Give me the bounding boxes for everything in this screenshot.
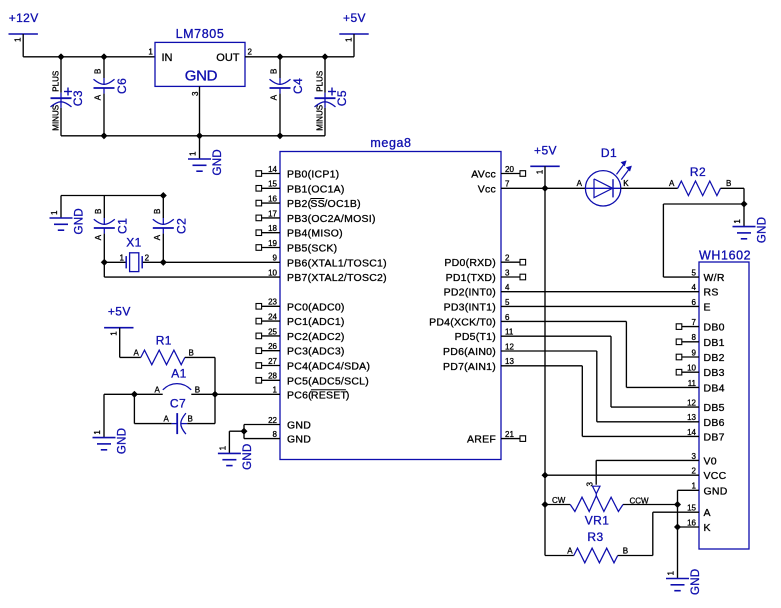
- ground near R2: [733, 217, 769, 243]
- svg-text:A1: A1: [171, 367, 186, 381]
- wire R3 B lead: [618, 555, 653, 557]
- svg-text:16: 16: [268, 195, 277, 204]
- svg-text:IN: IN: [162, 52, 173, 64]
- svg-text:C6: C6: [115, 78, 129, 94]
- op: mega8 box U2: [280, 136, 501, 460]
- mega8 pin 24 PC1(ADC1): [256, 313, 345, 329]
- wire C3 top lead: [60, 57, 62, 93]
- mega8 pin 22 GND: [268, 416, 311, 432]
- mega8 pin 18 PB4(MISO): [256, 224, 343, 240]
- mega8 pin 20 AVcc: [471, 165, 525, 181]
- svg-text:12: 12: [687, 399, 696, 408]
- svg-text:1: 1: [218, 445, 227, 450]
- capacitor C2: [153, 209, 189, 241]
- svg-text:19: 19: [268, 239, 277, 248]
- svg-text:+5V: +5V: [108, 305, 131, 319]
- svg-text:DB0: DB0: [704, 322, 725, 334]
- svg-text:3: 3: [586, 482, 595, 487]
- svg-text:DB1: DB1: [704, 337, 725, 349]
- svg-text:DB7: DB7: [704, 431, 725, 443]
- mega8 pin 11 PD5(T1): [455, 328, 514, 344]
- svg-text:7: 7: [505, 180, 510, 189]
- wire C1 top lead: [103, 196, 105, 219]
- wire xtal top rail: [61, 195, 163, 197]
- capacitor C3: [51, 71, 86, 131]
- junction C6 top: [101, 54, 108, 61]
- svg-text:PD5(T1): PD5(T1): [455, 331, 496, 343]
- svg-text:D1: D1: [601, 146, 617, 160]
- svg-text:14: 14: [687, 428, 696, 437]
- LCD pin 5 W/R: [692, 269, 725, 285]
- svg-text:1: 1: [119, 253, 124, 262]
- wire VCC h: [545, 474, 699, 476]
- LCD pin 8 DB1: [676, 333, 724, 349]
- capacitor C4: [270, 69, 306, 101]
- mega8 pin 3 PD1(TXD): [446, 268, 526, 284]
- svg-text:16: 16: [687, 518, 696, 527]
- wire PD3-E: [501, 305, 699, 307]
- svg-text:GND: GND: [212, 149, 224, 175]
- wire Vcc row: [501, 187, 585, 189]
- svg-text:C3: C3: [71, 90, 85, 106]
- mega8 pin 19 PB5(SCK): [256, 239, 337, 255]
- wire A stub: [653, 511, 699, 513]
- svg-text:MINUS: MINUS: [51, 105, 60, 131]
- svg-text:MINUS: MINUS: [315, 105, 324, 131]
- mega8 pin 2 PD0(RXD): [444, 254, 525, 270]
- LCD pin 10 DB3: [676, 364, 724, 380]
- wire A1 left stub: [134, 393, 162, 395]
- wire PB7 drop: [103, 262, 105, 277]
- capacitor C6: [94, 69, 130, 101]
- svg-text:23: 23: [268, 298, 277, 307]
- resistor R1: [134, 334, 194, 365]
- svg-text:VCC: VCC: [704, 470, 727, 482]
- wire C4 top lead: [279, 57, 281, 78]
- junction C6 bottom: [101, 133, 108, 140]
- svg-text:15: 15: [268, 180, 277, 189]
- svg-text:/OC1B): /OC1B): [324, 198, 361, 210]
- svg-text:13: 13: [687, 413, 696, 422]
- wire DB6 h: [597, 421, 699, 423]
- capacitor C1: [94, 209, 130, 241]
- mega8 pin 10 PB7(XTAL2/TOSC2): [268, 269, 387, 285]
- svg-text:PD1(TXD): PD1(TXD): [446, 272, 496, 284]
- wire +12V rail: [23, 56, 155, 58]
- wire to PC6: [215, 393, 280, 395]
- svg-text:6: 6: [692, 298, 697, 307]
- svg-text:): ): [346, 389, 350, 401]
- capacitor C7: [164, 397, 193, 435]
- wire WR vertical: [662, 204, 664, 277]
- svg-text:1: 1: [536, 169, 545, 174]
- svg-text:A: A: [577, 179, 583, 188]
- svg-text:CCW: CCW: [630, 497, 650, 506]
- junction WR gnd: [741, 201, 748, 208]
- junction C4 top: [277, 54, 284, 61]
- LCD pin 15 A: [687, 504, 711, 520]
- wire to PB7: [104, 276, 280, 278]
- svg-text:2: 2: [145, 253, 150, 262]
- svg-text:14: 14: [268, 165, 277, 174]
- LED D1: [577, 146, 632, 206]
- wire PD6 h: [501, 350, 597, 352]
- wire R2 B lead: [721, 187, 745, 189]
- power +5V: [339, 11, 368, 42]
- svg-text:DB4: DB4: [704, 382, 725, 394]
- svg-text:PD3(INT1): PD3(INT1): [444, 301, 496, 313]
- svg-text:PD0(RXD): PD0(RXD): [444, 257, 496, 269]
- mega8 pin 16 PB2(̅S̅S/OC1B): [256, 195, 361, 211]
- svg-text:LM7805: LM7805: [176, 27, 225, 41]
- svg-text:PC0(ADC0): PC0(ADC0): [287, 301, 345, 313]
- svg-text:GND: GND: [287, 434, 311, 446]
- svg-text:+5V: +5V: [343, 11, 366, 25]
- junction gnd pins: [241, 428, 248, 435]
- wire R2 to gnd: [743, 188, 745, 226]
- wire DB4 h: [626, 386, 699, 388]
- svg-text:A: A: [567, 547, 573, 556]
- switch A1: [155, 367, 201, 395]
- svg-text:18: 18: [268, 224, 277, 233]
- svg-text:C2: C2: [174, 218, 188, 234]
- wire ground rail: [61, 135, 325, 137]
- mega8 pin 21 AREF: [467, 430, 526, 446]
- wire C7 left lead: [134, 423, 171, 425]
- svg-text:9: 9: [692, 348, 697, 357]
- svg-text:C1: C1: [115, 218, 129, 234]
- svg-text:PD6(AIN0): PD6(AIN0): [443, 346, 496, 358]
- wire PD4 h: [501, 320, 626, 322]
- wire +5V long vertical: [544, 166, 546, 475]
- svg-text:K: K: [704, 522, 711, 534]
- svg-text:RESET: RESET: [311, 389, 348, 401]
- wire +5V drop: [119, 328, 121, 358]
- ground near crystal: [50, 208, 86, 234]
- mega8 pin 7 Vcc: [478, 180, 510, 196]
- svg-text:13: 13: [505, 357, 514, 366]
- svg-text:1: 1: [692, 482, 697, 491]
- wire PD6 v: [596, 351, 598, 422]
- svg-text:B: B: [270, 69, 279, 74]
- svg-text:5: 5: [692, 269, 697, 278]
- LCD pin 11 DB4: [688, 379, 725, 395]
- wire WR horizontal: [663, 203, 744, 205]
- wire DB5 h: [611, 406, 699, 408]
- svg-text:PC4(ADC4/SDA): PC4(ADC4/SDA): [287, 361, 370, 373]
- svg-text:DB2: DB2: [704, 352, 725, 364]
- wire PD4 v: [625, 321, 627, 387]
- svg-text:25: 25: [268, 327, 277, 336]
- svg-text:PB3(OC2A/MOSI): PB3(OC2A/MOSI): [287, 213, 376, 225]
- svg-text:OUT: OUT: [216, 52, 240, 64]
- ground mega8: [218, 443, 254, 469]
- LCD pin 3 V0: [692, 452, 717, 468]
- wire R1 to node: [214, 357, 216, 394]
- mega8 pin 25 PC2(ADC2): [256, 327, 345, 343]
- svg-text:K: K: [623, 179, 629, 188]
- svg-text:PB5(SCK): PB5(SCK): [287, 243, 337, 255]
- wire C7 right vert: [214, 394, 216, 423]
- svg-text:PB1(OC1A): PB1(OC1A): [287, 183, 345, 195]
- junction C4 bottom: [277, 133, 284, 140]
- svg-text:GND: GND: [185, 68, 218, 85]
- mega8 pin 17 PB3(OC2A/MOSI): [256, 209, 376, 225]
- svg-text:mega8: mega8: [370, 136, 411, 150]
- wire X1 pin1: [104, 261, 125, 263]
- wire CCW stub: [623, 504, 678, 506]
- svg-text:3: 3: [692, 452, 697, 461]
- svg-text:24: 24: [268, 313, 277, 322]
- svg-text:PC2(ADC2): PC2(ADC2): [287, 331, 345, 343]
- ground bottom right: [666, 569, 702, 595]
- svg-text:R1: R1: [156, 334, 172, 348]
- mega8 pin 27 PC4(ADC4/SDA): [256, 357, 370, 373]
- LCD U3 WH1602 box: [699, 249, 751, 550]
- svg-text:CW: CW: [552, 496, 566, 505]
- LCD pin 6 E: [692, 298, 711, 314]
- wire LM7805 pin3: [199, 86, 201, 159]
- svg-text:GND: GND: [757, 217, 769, 243]
- wire LM7805 OUT rail: [245, 56, 354, 58]
- wire +5V lower v: [544, 475, 546, 556]
- svg-text:28: 28: [268, 372, 277, 381]
- wire C1 bottom lead: [103, 234, 105, 263]
- capacitor C5: [315, 71, 350, 131]
- svg-text:1: 1: [50, 210, 59, 215]
- wire R3 A lead: [545, 555, 574, 557]
- svg-text:1: 1: [14, 37, 23, 42]
- wire LED to R2: [621, 187, 678, 189]
- svg-text:PB0(ICP1): PB0(ICP1): [287, 169, 339, 181]
- wire to gnd: [60, 196, 62, 219]
- mega8 pin 14 PB0(ICP1): [256, 165, 339, 181]
- wire C7 left vert: [133, 394, 135, 423]
- wire to PB6: [163, 261, 280, 263]
- power +12V: [9, 11, 39, 42]
- junction regulator gnd: [196, 133, 203, 140]
- wire gnd tap: [104, 393, 134, 395]
- crystal X1: [119, 236, 149, 272]
- svg-text:B: B: [153, 209, 162, 214]
- svg-text:PD7(AIN1): PD7(AIN1): [443, 361, 496, 373]
- LCD pin 16 K: [687, 518, 711, 534]
- wire R1 A lead: [120, 356, 141, 358]
- svg-text:PD2(INT0): PD2(INT0): [444, 287, 496, 299]
- wire C3 bottom lead: [60, 108, 62, 136]
- wire C4 bottom lead: [279, 94, 281, 136]
- svg-text:+5V: +5V: [534, 144, 557, 158]
- wire A to R3: [652, 512, 654, 555]
- svg-text:C7: C7: [170, 397, 186, 411]
- svg-text:10: 10: [268, 269, 277, 278]
- junction K: [674, 524, 681, 531]
- svg-text:A: A: [164, 414, 170, 423]
- svg-text:A: A: [704, 507, 711, 519]
- svg-text:A: A: [669, 179, 675, 188]
- svg-text:1: 1: [189, 151, 198, 156]
- wire gnd22: [244, 424, 280, 426]
- svg-text:X1: X1: [126, 236, 141, 250]
- wire PD5 h: [501, 335, 611, 337]
- resistor R3: [567, 530, 628, 563]
- mega8 pin 1 PC6(RESET): [273, 386, 350, 402]
- wire C2 top lead: [162, 196, 164, 219]
- wire CW stub: [545, 504, 570, 506]
- svg-text:17: 17: [268, 209, 277, 218]
- junction reset node right: [212, 391, 219, 398]
- svg-text:A: A: [134, 348, 140, 357]
- wire gnd drop2: [228, 431, 230, 453]
- svg-text:B: B: [188, 414, 193, 423]
- svg-text:7: 7: [692, 318, 697, 327]
- svg-text:B: B: [94, 69, 103, 74]
- svg-text:1: 1: [148, 48, 153, 57]
- mega8 pin 26 PC3(ADC3): [256, 342, 345, 358]
- svg-text:R2: R2: [690, 165, 706, 179]
- junction reset node left: [131, 391, 138, 398]
- wire C6 top lead: [103, 57, 105, 78]
- wire C5 top lead: [324, 57, 326, 93]
- svg-text:GND: GND: [704, 485, 728, 497]
- svg-text:26: 26: [268, 342, 277, 351]
- svg-text:DB5: DB5: [704, 402, 725, 414]
- svg-text:GND: GND: [242, 443, 254, 469]
- svg-text:W/R: W/R: [704, 272, 725, 284]
- svg-text:2: 2: [505, 254, 510, 263]
- svg-text:10: 10: [687, 364, 696, 373]
- wire C2 bottom lead: [162, 234, 164, 263]
- svg-text:A: A: [153, 234, 162, 240]
- svg-text:27: 27: [268, 357, 277, 366]
- mega8 pin 13 PD7(AIN1): [443, 357, 514, 373]
- svg-text:A: A: [94, 234, 103, 240]
- wire LCD gnd h: [678, 489, 700, 491]
- wire A1 right stub: [191, 393, 215, 395]
- wire V0 h: [596, 459, 699, 461]
- LCD pin 13 DB6: [687, 413, 725, 429]
- svg-text:2: 2: [248, 48, 253, 57]
- LCD pin 14 DB7: [687, 428, 725, 444]
- wire R1 B lead: [185, 356, 215, 358]
- svg-text:SS: SS: [310, 198, 325, 210]
- svg-text:R3: R3: [587, 530, 603, 544]
- svg-text:B: B: [189, 348, 194, 357]
- resistor R2: [669, 165, 731, 196]
- svg-text:V0: V0: [704, 455, 717, 467]
- svg-text:WH1602: WH1602: [699, 249, 751, 263]
- svg-text:Vcc: Vcc: [478, 183, 496, 195]
- wire X1 pin2: [143, 261, 164, 263]
- svg-text:PD4(XCK/T0): PD4(XCK/T0): [429, 316, 496, 328]
- svg-text:+12V: +12V: [9, 11, 39, 25]
- svg-text:B: B: [623, 547, 628, 556]
- svg-text:B: B: [94, 209, 103, 214]
- svg-text:DB6: DB6: [704, 417, 725, 429]
- svg-text:12: 12: [505, 342, 514, 351]
- mega8 pin 12 PD6(AIN0): [443, 342, 514, 358]
- junction VCC: [542, 472, 549, 479]
- junction Vcc: [542, 185, 549, 192]
- LCD pin 4 RS: [692, 283, 719, 299]
- svg-text:VR1: VR1: [585, 514, 610, 528]
- wire PD2-RS: [501, 291, 699, 293]
- junction C2 top: [160, 192, 167, 199]
- mega8 pin 28 PC5(ADC5/SCL): [256, 372, 369, 388]
- wire PD5 v: [610, 336, 612, 407]
- svg-text:8: 8: [692, 333, 697, 342]
- svg-text:A: A: [94, 94, 103, 100]
- wire PD7 h: [501, 365, 582, 367]
- LCD pin 9 DB2: [676, 348, 724, 364]
- svg-text:2: 2: [692, 467, 697, 476]
- svg-text:6: 6: [505, 313, 510, 322]
- svg-text:AVcc: AVcc: [471, 169, 496, 181]
- svg-text:4: 4: [505, 283, 510, 292]
- svg-text:4: 4: [692, 283, 697, 292]
- svg-text:GND: GND: [287, 420, 311, 432]
- svg-text:20: 20: [505, 165, 514, 174]
- junction C3 top: [58, 54, 65, 61]
- wire LCD gnd v: [677, 490, 679, 578]
- svg-text:RS: RS: [704, 287, 719, 299]
- svg-text:21: 21: [505, 430, 514, 439]
- wire V0 wiper v: [595, 460, 597, 484]
- svg-text:A: A: [155, 386, 161, 395]
- svg-text:GND: GND: [74, 208, 86, 234]
- mega8 pin 4 PD2(INT0): [444, 283, 510, 299]
- svg-text:E: E: [704, 301, 711, 313]
- ground near C7: [93, 428, 129, 454]
- svg-text:DB3: DB3: [704, 367, 725, 379]
- svg-text:B: B: [726, 179, 731, 188]
- LCD pin 12 DB5: [687, 399, 725, 415]
- svg-text:PLUS: PLUS: [315, 71, 324, 92]
- svg-text:1: 1: [667, 571, 676, 576]
- wire C6 bottom lead: [103, 94, 105, 136]
- svg-text:PB4(MISO): PB4(MISO): [287, 228, 343, 240]
- svg-text:22: 22: [268, 416, 277, 425]
- svg-text:1: 1: [109, 331, 118, 336]
- wire C5 bottom lead: [324, 108, 326, 136]
- svg-text:5: 5: [505, 298, 510, 307]
- svg-text:PLUS: PLUS: [51, 71, 60, 92]
- mega8 pin 8 GND: [273, 430, 312, 446]
- svg-text:GND: GND: [690, 569, 702, 595]
- svg-text:C4: C4: [291, 78, 305, 94]
- svg-text:8: 8: [273, 430, 278, 439]
- junction C5 top: [322, 54, 329, 61]
- wire gnd drop: [103, 394, 105, 437]
- svg-text:1: 1: [345, 37, 354, 42]
- svg-text:PC3(ADC3): PC3(ADC3): [287, 346, 345, 358]
- svg-text:11: 11: [688, 379, 697, 388]
- svg-text:PC1(ADC1): PC1(ADC1): [287, 316, 345, 328]
- LCD pin 2 VCC: [692, 467, 727, 483]
- svg-text:9: 9: [273, 254, 278, 263]
- svg-text:PB7(XTAL2/TOSC2): PB7(XTAL2/TOSC2): [287, 272, 387, 284]
- svg-text:15: 15: [687, 504, 696, 513]
- wire WR stub: [663, 276, 699, 278]
- svg-text:AREF: AREF: [467, 434, 496, 446]
- wire gnd join: [243, 425, 245, 439]
- wire K stub: [678, 526, 700, 528]
- junction X1 pin2: [160, 259, 167, 266]
- svg-text:PB2(: PB2(: [287, 198, 312, 210]
- junction X1 pin1: [101, 259, 108, 266]
- svg-text:1: 1: [273, 386, 278, 395]
- wire gnd tap2: [229, 430, 244, 432]
